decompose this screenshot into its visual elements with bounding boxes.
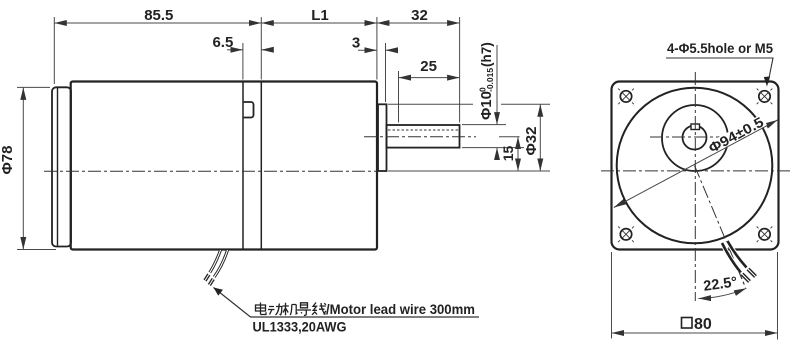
ext boss top edge [388,103,473,105]
right view mounting flange square [612,82,779,250]
leader arrowhead [214,288,224,296]
svg-text:15: 15 [500,146,516,162]
vertical centerline right view [694,72,696,301]
horizontal centerline right view [601,170,792,172]
dim 85.5 [54,22,261,24]
ext boss bottom edge [388,170,550,172]
motor body [71,82,377,250]
22.5 line tail over wires [739,271,746,288]
svg-text:(h7): (h7) [479,42,494,67]
hole cross marks [618,89,772,243]
dim phi32 [539,104,541,171]
22.5 angle arc [699,288,747,298]
right view terminal 2 [748,269,756,277]
dim 3 left tail [358,49,377,51]
divider line 1 [242,82,244,250]
dim text phi78 rotated [0,146,16,175]
ext shaft bottom edge [462,147,524,149]
ext 85.5 right / L1 left [260,17,262,80]
dim text phi94 with white mask [705,113,768,157]
ext shaft axis right [499,136,520,138]
corner hole BL [620,229,631,240]
svg-text:Φ32: Φ32 [523,127,540,156]
dim 32 [377,22,460,24]
dim 6.5 left tail [227,49,243,51]
dim 6.5 right tail [261,49,269,51]
dim phi78 [22,87,24,249]
dim phi10 upper leader [496,45,498,125]
dim 25 [399,77,460,79]
svg-text:6.5: 6.5 [212,34,233,51]
svg-text:32: 32 [411,7,428,24]
22.5 degree line [695,166,746,288]
corner hole TL [620,91,770,240]
dim square80 [612,332,778,334]
chinese label: dao [297,303,311,316]
shaft keyway [691,124,700,130]
svg-text:Φ78: Φ78 [0,146,16,175]
dimension lines [23,23,540,250]
divider line 2 [260,82,262,250]
svg-text:L1: L1 [311,7,329,24]
svg-text:22.5°: 22.5° [702,274,738,295]
corner hole BR [759,229,770,240]
body axis centerline [44,170,378,172]
svg-text:Φ94±0.5: Φ94±0.5 [706,113,767,156]
right view terminal 1 [742,274,750,282]
extension lines left view [17,17,550,250]
ext shaft top edge [462,124,506,126]
dim phi10 lower tail [496,148,498,160]
dim 15 [517,137,519,171]
rear cap inner line [57,88,59,247]
shaft boss circle [662,105,728,171]
dim 3 right tail [386,49,395,51]
svg-text:-0.015: -0.015 [485,68,495,92]
dim phi94 diagonal [614,120,778,208]
corner hole TR [759,91,770,102]
svg-text:/Motor lead wire 300mm: /Motor lead wire 300mm [326,302,475,317]
motor body circle [617,88,773,244]
wire terminal 1 [205,275,209,281]
svg-text:Φ10: Φ10 [478,91,495,120]
chinese label: ji [283,303,298,315]
ext 25 left [398,71,400,123]
dim text 22.5 [701,274,741,295]
motor rear cap [52,87,71,246]
chinese label: dong [268,304,283,316]
dim text phi32 rotated [523,127,540,156]
right view wire 2 [728,241,747,268]
lead wire left view wire 1 [210,250,221,273]
ext L1 right / 32 left [376,17,378,80]
ext 85.5 left [53,17,55,84]
svg-text:3: 3 [352,35,360,52]
ext square80 left [611,252,613,339]
lead wire left view wire 2 [214,250,227,277]
ext 3 right [385,43,387,102]
output shaft [387,125,460,148]
ext phi78 bottom [17,249,56,251]
ext 6.5 left [242,43,244,80]
chinese label: dian [256,303,267,315]
shaft keyway hidden line [388,129,459,131]
shaft axis centerline [364,136,476,138]
leader line to lead wire text [214,288,480,318]
chinese label: xian [312,303,326,315]
dim L1 [261,22,377,24]
right view lead wires wire 1 [722,243,741,273]
terminal tab [244,102,254,118]
label underline [666,58,773,83]
dim text 15 rotated [500,146,516,162]
wire terminal 2 [209,279,213,285]
svg-text:UL1333,20AWG: UL1333,20AWG [253,319,347,335]
ext 32 right / 25 right [459,17,461,123]
dim text phi10 tolerance rotated [478,42,496,120]
shaft circle [683,126,707,150]
shaft boss [378,104,387,171]
svg-text:25: 25 [420,58,437,75]
label arrowhead [764,77,770,87]
svg-text:80: 80 [694,316,712,333]
ext square80 right [777,252,779,340]
svg-text:85.5: 85.5 [144,7,173,24]
svg-text:4-Φ5.5hole or M5: 4-Φ5.5hole or M5 [667,40,773,56]
square symbol of 80 [682,318,693,329]
ext phi78 top [17,86,50,88]
shaft horizontal centerline right view [650,136,745,138]
